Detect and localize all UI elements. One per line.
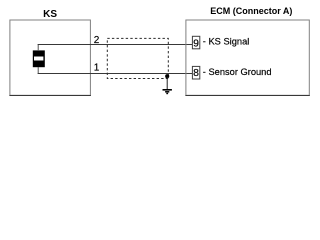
wire sensor bottom stub: [37, 67, 39, 74]
pin 9 box: [192, 36, 199, 49]
ECM box: [185, 20, 309, 96]
svg-text:KS: KS: [43, 9, 57, 20]
svg-text:8: 8: [193, 67, 199, 79]
pin 8 box: [192, 66, 199, 79]
knock sensor element: [33, 50, 45, 67]
wire shield to ground: [166, 77, 168, 90]
svg-text:- Sensor Ground: - Sensor Ground: [203, 67, 272, 77]
wire sensor top stub: [37, 44, 39, 51]
shield (dashed): [107, 38, 168, 78]
svg-text:2: 2: [94, 35, 100, 46]
svg-text:9: 9: [193, 37, 199, 49]
svg-text:- KS Signal: - KS Signal: [203, 37, 250, 47]
ground: [163, 90, 172, 94]
wire KS pin 2 to ECM pin 9 (KS Signal): [38, 44, 193, 46]
junction dot: [165, 74, 169, 78]
wire KS pin 1 to ECM pin 8 (Sensor Ground): [38, 73, 193, 75]
KS box: [9, 20, 91, 96]
svg-text:1: 1: [94, 63, 100, 74]
svg-text:ECM (Connector A): ECM (Connector A): [210, 6, 292, 16]
